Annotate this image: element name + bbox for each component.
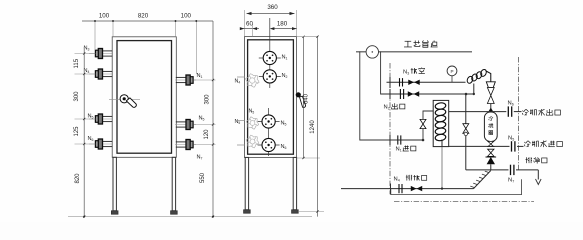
svg-text:360: 360 — [267, 4, 278, 11]
front view right dimension chain 300/120/550 — [212, 21, 214, 217]
trap circle on vertical line — [464, 132, 467, 135]
svg-text:100: 100 — [181, 13, 192, 20]
side view top dimension 60 and 180 — [240, 28, 259, 30]
line N3 vent 放空 — [387, 81, 466, 83]
pressure instrument bubble PI — [451, 76, 453, 82]
front view: left support leg — [113, 157, 116, 211]
svg-text:60: 60 — [246, 20, 253, 27]
phantom flange of nozzle N5 on side view wall — [246, 117, 258, 129]
junction on N2 line — [465, 93, 468, 96]
line N2 outlet 出口 — [381, 93, 474, 95]
pipe: drop from process line to N2 outlet line — [381, 52, 398, 94]
side view vertical centerline (top nozzles) — [269, 18, 271, 88]
flange pair at N5 — [511, 141, 513, 151]
ground line under front and side views — [68, 216, 312, 218]
side view dimension 1240 — [317, 37, 319, 217]
flange pair on N4 line — [398, 184, 400, 193]
side view vertical centerline (bottom nozzles) — [268, 108, 270, 156]
heater box with coil — [433, 100, 449, 146]
sloped drain to trench with hatching — [474, 171, 491, 189]
sight-glass wiper handle on front view — [109, 98, 140, 100]
handle on side view right wall — [296, 92, 301, 97]
process pipeline header 工艺管道 — [356, 51, 472, 53]
valve and check below condenser to drain header — [488, 149, 494, 156]
valve on bypass riser — [420, 119, 426, 128]
nozzle circle N1 (side view) — [259, 57, 281, 59]
svg-text:125: 125 — [74, 126, 80, 137]
main vertical line with valve (x465) — [465, 94, 467, 170]
front view: tank outer shell — [112, 37, 176, 158]
valve under condenser — [488, 141, 494, 146]
bottom drain line N4 排放口 — [341, 188, 474, 190]
battery limit line (bottom, dash-dot) — [394, 200, 534, 202]
svg-text:550: 550 — [200, 172, 206, 183]
front view: right support leg — [172, 157, 175, 211]
drain drop with open arrow (Y) — [537, 170, 539, 180]
side view top dimension 360 — [247, 13, 295, 15]
condensate tail from heater to drain line — [441, 147, 443, 189]
front view left dimension chain 115/300/125/820 — [83, 47, 85, 217]
valve on N3 line — [408, 80, 419, 85]
nozzle N1 (front view upper-right) — [175, 79, 196, 81]
flange pair at N7 — [510, 165, 512, 175]
svg-text:640: 640 — [304, 93, 310, 104]
bypass riser with valve to heater inlet — [423, 111, 433, 140]
nozzle N7 (front view bottom-right) — [175, 144, 196, 146]
side view right support leg — [293, 157, 296, 209]
safety valve body (two triangles) — [487, 88, 494, 104]
nozzle N3 (front view upper-left) — [89, 53, 113, 55]
phantom flange of nozzle N6 on side view wall — [246, 135, 259, 148]
valve on N2 line — [408, 91, 419, 96]
svg-text:820: 820 — [138, 13, 149, 20]
svg-text:300: 300 — [74, 91, 80, 102]
nozzle circle N2 (side view) — [259, 75, 281, 77]
svg-text:1240: 1240 — [310, 120, 316, 134]
nozzle N6 (front view bottom-left) — [89, 143, 113, 145]
svg-text:180: 180 — [277, 20, 288, 27]
battery limit line (left, dash-dot) — [389, 63, 391, 194]
front view top dimension line 100/820/100 — [82, 20, 213, 22]
svg-text:820: 820 — [75, 173, 81, 184]
nozzle N4 (front view left) — [89, 73, 113, 75]
svg-text:120: 120 — [204, 129, 210, 140]
svg-text:115: 115 — [74, 58, 80, 68]
valve on N4 line — [411, 186, 422, 191]
cooling water outlet line 冷却水出口 — [449, 111, 507, 113]
line N1 inlet 进口 — [389, 135, 391, 145]
flange pair on N2 line — [399, 89, 401, 99]
svg-text:100: 100 — [99, 13, 110, 20]
side view left support leg — [245, 157, 248, 209]
side view: vessel inner shell — [248, 40, 294, 154]
nozzle N5 (front view lower-left) — [89, 118, 113, 120]
side view dimension 640 — [303, 37, 305, 158]
nozzle circle N5 (side view) — [258, 121, 280, 123]
nozzle N5b (front view mid-right) — [175, 124, 196, 126]
side view: vessel outer shell — [244, 37, 296, 158]
valve on vertical line — [463, 124, 469, 134]
cooling water inlet line 冷却水进口 — [449, 145, 510, 147]
front view: tank inner shell — [117, 41, 172, 154]
svg-text:P: P — [450, 69, 453, 74]
phantom flange of nozzle N4 on side view wall — [246, 74, 260, 88]
flange pair on N3 line — [399, 78, 401, 86]
nozzle circle N6 (side view) — [258, 144, 280, 146]
instrument bubble on process line — [366, 46, 378, 58]
unit boundary bottom (solid with corners) — [391, 179, 522, 194]
svg-text:300: 300 — [205, 94, 211, 105]
drain header 排净口 — [466, 169, 509, 171]
pipe: drop from process line to N1 inlet line — [360, 52, 397, 140]
safety valve with curled vent pipe — [466, 69, 491, 85]
flange pair on N1 line — [397, 135, 399, 144]
battery limit line (right, dash-dot) — [518, 57, 520, 170]
flange pair at N6 — [507, 106, 509, 116]
condenser capsule 冷凝器 — [484, 112, 497, 142]
